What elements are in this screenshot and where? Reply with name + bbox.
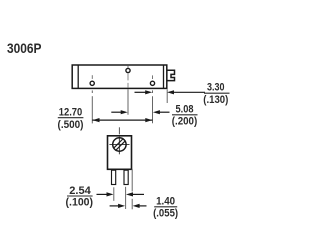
adjustment screw end (side view protrusion with slot notch) xyxy=(167,70,175,80)
dimension 3.30 (.130) leader arrows xyxy=(135,90,206,94)
svg-text:3.30: 3.30 xyxy=(207,82,225,94)
svg-text:12.70: 12.70 xyxy=(59,106,83,118)
extension line pin3 centerline xyxy=(152,90,154,123)
dimension 2.54 (.100) leader arrows xyxy=(97,192,145,196)
svg-text:(.100): (.100) xyxy=(66,197,94,209)
dimension text 3.30 (.130) xyxy=(203,82,229,106)
svg-text:2.54: 2.54 xyxy=(69,185,91,197)
centerline dash above pin 1 xyxy=(91,75,93,79)
body outline (front/end view) xyxy=(108,136,132,170)
front view centerline above body xyxy=(118,127,120,134)
extension line pin2 centerline xyxy=(127,89,129,115)
body outline (top/side view) xyxy=(72,65,167,88)
screw crosshair vertical centerline xyxy=(118,136,120,154)
centerline below pin 2 xyxy=(127,73,129,87)
screw slot line 2 xyxy=(115,141,125,151)
svg-text:1.40: 1.40 xyxy=(156,196,175,208)
right lead (front view) xyxy=(124,170,128,184)
svg-text:5.08: 5.08 xyxy=(176,104,194,116)
dimension 1.40 (.055) leader arrows xyxy=(110,204,147,208)
extension line left lead centerline xyxy=(113,187,115,201)
svg-text:3006P: 3006P xyxy=(7,40,42,56)
dimension text 5.08 (.200) xyxy=(172,104,198,128)
extension line pin1 centerline xyxy=(91,90,93,123)
svg-text:(.130): (.130) xyxy=(203,94,228,106)
extension line body right edge xyxy=(166,89,168,103)
centerline dash above pin 2 xyxy=(127,66,129,68)
svg-text:(.200): (.200) xyxy=(172,115,198,127)
pin hole 1 (left) xyxy=(90,81,94,85)
dimension 5.08 (.200) leader arrows xyxy=(111,110,169,114)
extension line lead right edge xyxy=(131,169,133,192)
left end cap line xyxy=(77,65,79,88)
dimension text 12.70 (.500) xyxy=(58,106,84,130)
screw slot line 1 xyxy=(114,139,124,149)
dimension text 2.54 (.100) xyxy=(66,185,94,209)
extension line right lead centerline xyxy=(125,187,127,209)
svg-text:(.055): (.055) xyxy=(153,207,178,219)
dimension 12.70 (.500) line with arrows xyxy=(92,118,152,122)
dimension text 1.40 (.055) xyxy=(153,196,178,220)
svg-text:(.500): (.500) xyxy=(58,119,84,131)
pin hole 2 (middle) xyxy=(126,68,130,72)
right end cap line xyxy=(163,65,165,88)
left lead (front view) xyxy=(112,170,116,184)
screw crosshair horizontal centerline xyxy=(109,144,129,146)
pin hole 3 (right) xyxy=(150,81,154,85)
centerline dash above pin 3 xyxy=(152,75,154,79)
adjustment screw circle (front view) xyxy=(113,138,126,151)
